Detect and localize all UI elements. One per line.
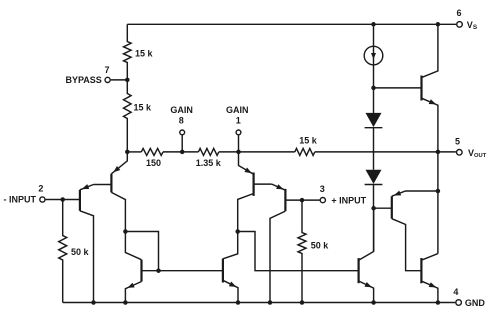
svg-text:8: 8 [179,115,184,125]
resistor R3 150 [141,148,163,155]
transistor Q7 collector [421,254,438,261]
diode D2 anode triangle [366,170,382,184]
wire gain8 lead [181,135,183,152]
wire pin2 to Q1 base [46,199,80,201]
transistor Q4 collector [270,211,285,302]
diode D1 anode triangle [366,113,382,127]
node Q8 emitter ground [371,300,376,305]
transistor Q8 base bar [358,258,360,283]
svg-text:7: 7 [104,65,109,75]
node Q10 emitter ground [236,300,241,305]
node current source output [371,86,376,91]
pin 2 -INPUT terminal [40,197,45,202]
svg-text:6: 6 [456,8,461,18]
svg-text:BYPASS: BYPASS [65,75,101,85]
svg-text:4: 4 [453,287,458,297]
wire mirror input to collector [125,232,158,271]
wire [373,24,375,88]
transistor Q5 collector [422,24,438,77]
node output junction [436,150,441,155]
node gain1 junction [236,150,241,155]
svg-text:15 k: 15 k [134,103,153,113]
transistor Q6 emitter [392,191,438,196]
node gain8 junction [180,150,185,155]
transistor Q4 emitter arrow [276,184,284,189]
wire ground rail [63,302,456,304]
svg-text:150: 150 [146,158,161,168]
svg-text:50 k: 50 k [71,247,90,257]
wire [373,88,375,113]
wire [163,151,198,153]
node R7 ground [300,300,305,305]
resistor R2 15 k [124,80,132,152]
node diode bottom [371,206,376,211]
transistor Q9 collector [142,270,159,272]
resistor R6 50 k [59,200,67,303]
transistor Q2 collector [111,192,125,231]
transistor Q3 base bar [253,173,255,196]
transistor Q7 emitter arrow [429,282,437,287]
pin 1 GAIN terminal [236,130,241,135]
wire top supply rail [127,23,456,25]
svg-text:15 k: 15 k [299,135,318,145]
transistor Q5 emitter arrow [429,99,437,104]
transistor Q2 emitter [111,152,127,174]
transistor Q1 collector [80,211,94,303]
node pin3 junction [300,198,305,203]
node Q7 emitter ground [436,300,441,305]
transistor Q9 base path [125,232,141,260]
svg-text:15 k: 15 k [135,48,154,58]
pin 7 BYPASS terminal [105,77,110,82]
transistor Q3 collector [238,194,254,232]
resistor R1 15 k [124,24,132,80]
resistor R7 50 k [298,200,306,302]
wire Q4 base to pin3 [285,199,319,201]
wire output rail [127,151,141,153]
transistor Q4 emitter [272,184,286,190]
transistor Q6 collector [392,219,422,271]
node mirror collector junction [156,268,161,273]
pin 6 VS terminal [457,22,463,28]
wire [373,208,375,251]
wire gain1 lead [238,135,240,152]
node Q5 collector rail [436,22,441,27]
svg-text:1: 1 [236,115,241,125]
svg-text:GAIN: GAIN [170,105,193,115]
node Q9 emitter ground [123,300,128,305]
wire base feed to Q5 [374,87,422,89]
wire [373,128,375,170]
transistor Q5 emitter [422,98,438,152]
transistor Q9 emitter arrow [127,283,135,288]
transistor Q2 emitter arrow [113,166,120,172]
node Q6 emitter junction [436,189,441,194]
transistor Q1 emitter arrow [82,184,90,189]
wire [373,185,375,209]
transistor Q9 emitter [125,282,141,303]
transistor Q8 emitter arrow [365,282,372,287]
node mirror input [123,229,128,234]
svg-text:GND: GND [465,298,486,308]
svg-text:- INPUT: - INPUT [4,195,37,205]
svg-text:50 k: 50 k [311,240,330,250]
node Q4 collector ground [268,300,273,305]
wire diode bottom to Q6 base [374,207,392,209]
transistor Q1 emitter [80,185,94,190]
pin 5 VOUT terminal [457,150,463,156]
pin 8 GAIN terminal [180,130,185,135]
transistor Q7 base bar [420,258,422,283]
pin 3 +INPUT terminal [320,198,325,203]
svg-text:GAIN: GAIN [226,105,249,115]
svg-text:2: 2 [38,183,43,193]
diode D1 cathode bar [365,127,383,129]
node mirror output [235,229,240,234]
svg-text:5: 5 [455,136,460,146]
wire Q3 base to Q4 emitter [254,183,272,185]
node pin2 junction [60,197,64,202]
transistor Q8 collector [359,208,374,260]
transistor Q10 base bar [222,259,224,283]
svg-text:VOUT: VOUT [468,148,487,159]
transistor Q8 emitter [359,281,374,303]
transistor Q10 collector [223,232,238,259]
transistor Q4 base bar [284,189,286,211]
wire mirror bases link [159,270,223,272]
node supply rail junction [371,22,376,27]
transistor Q5 base bar [420,76,422,101]
diode D2 cathode bar [365,184,383,186]
wire Q1 emitter to Q2 base [94,184,112,186]
wire [315,151,456,153]
current source I1 arrowhead [371,53,376,59]
wire mirror output to driver base [238,232,359,271]
pin 4 GND terminal [456,300,462,306]
resistor R4 1.35 k [198,148,218,155]
wire output vertical [437,152,439,254]
node input bias junction [125,150,130,155]
wire pin7 lead [111,79,128,81]
svg-text:3: 3 [320,184,325,194]
transistor Q9 base bar [140,260,142,282]
transistor Q2 base bar [110,174,112,193]
current source I1 circle [364,46,383,65]
node bypass junction [125,78,130,83]
resistor R5 15 k feedback [295,148,315,155]
node Q1 collector ground [91,300,96,305]
transistor Q7 emitter [421,281,438,302]
svg-text:VS: VS [467,20,478,31]
transistor Q6 emitter arrow [394,191,402,196]
transistor Q10 emitter arrow [229,282,236,287]
transistor Q10 emitter [223,280,238,302]
svg-text:+ INPUT: + INPUT [331,195,366,205]
transistor Q1 base bar [79,190,81,211]
transistor Q6 base bar [391,196,393,219]
transistor Q3 emitter arrow [244,168,251,174]
wire [219,151,295,153]
svg-text:1.35 k: 1.35 k [196,158,222,168]
transistor Q3 emitter [239,152,254,174]
